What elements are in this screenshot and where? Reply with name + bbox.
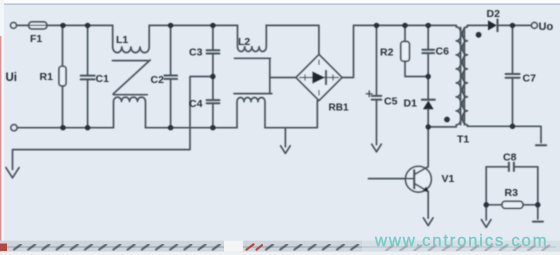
band red marks xyxy=(247,244,263,249)
bridge ac tick bottom xyxy=(318,91,320,96)
bottom left red blob xyxy=(0,244,7,252)
node top bus R1 xyxy=(60,23,65,28)
resistor R2 xyxy=(404,25,406,41)
diode D1 xyxy=(427,77,429,100)
bridge side tick right xyxy=(332,75,334,80)
resistor R3 xyxy=(486,204,502,206)
choke L2 core link vertical xyxy=(269,58,271,93)
band mid line xyxy=(4,246,556,247)
svg-text:Ui: Ui xyxy=(6,72,18,84)
output terminal xyxy=(532,23,538,29)
svg-text:C7: C7 xyxy=(523,73,537,85)
top border line xyxy=(0,3,560,5)
choke L2 top winding xyxy=(238,25,267,51)
svg-text:D1: D1 xyxy=(404,98,418,110)
wire: top bus L1 to L2 xyxy=(149,24,237,26)
V1 collector inner xyxy=(414,167,428,175)
V1 emitter inner xyxy=(414,183,428,191)
transformer T1 core line left xyxy=(460,28,462,125)
node bottom bus R1 xyxy=(60,125,65,130)
ground arrow under C5 xyxy=(372,144,382,152)
V1 emitter arrowhead xyxy=(423,186,429,192)
T1 primary polarity dot xyxy=(444,117,450,123)
svg-text:C4: C4 xyxy=(189,98,203,110)
ground arrow bottom left xyxy=(6,168,19,178)
svg-text:C8: C8 xyxy=(503,152,517,164)
svg-text:Uo: Uo xyxy=(539,21,554,33)
band white gap box xyxy=(224,241,243,252)
capacitor C7 xyxy=(512,25,514,73)
ground arrow under V1 xyxy=(423,218,433,226)
wire: top bus L2 to bridge top corner xyxy=(266,25,319,54)
capacitor C6 xyxy=(427,25,429,49)
capacitor C1 xyxy=(87,25,89,75)
wire: secondary top to D2 xyxy=(467,24,488,26)
transformer T1 secondary winding xyxy=(462,25,467,126)
choke L1 bottom core bar xyxy=(114,94,148,96)
svg-text:C2: C2 xyxy=(151,74,165,86)
capacitor C3 xyxy=(212,25,214,50)
V1 emitter down wire xyxy=(427,192,429,219)
choke L2 top core bar xyxy=(235,57,271,59)
V1 base bar xyxy=(413,170,415,188)
left red edge line xyxy=(0,36,1,252)
svg-text:C1: C1 xyxy=(96,73,110,85)
bridge inner diode bar xyxy=(325,71,327,84)
choke L2 bottom winding xyxy=(237,98,265,128)
input terminal bottom xyxy=(11,125,17,131)
wire: D2 to output terminal xyxy=(498,24,532,26)
svg-text:C6: C6 xyxy=(436,46,450,58)
node R2 C6 D1 xyxy=(426,74,431,79)
node top bus R2 xyxy=(402,23,407,28)
svg-text:T1: T1 xyxy=(457,134,469,146)
fuse F1 xyxy=(29,22,47,29)
ground bar secondary xyxy=(536,144,546,146)
choke L1 top winding xyxy=(113,25,150,52)
wire: D1 junction to transformer primary bottom xyxy=(428,126,456,128)
transformer T1 core line right xyxy=(463,28,465,125)
capacitor C4 xyxy=(212,77,214,100)
top white edge strip xyxy=(0,0,560,3)
wire: D1 junction down to V1 collector xyxy=(427,127,429,167)
ground bar under right node xyxy=(533,221,543,223)
wire: bottom bus L1 to L2 xyxy=(146,127,238,129)
choke L1 diagonal xyxy=(113,60,150,94)
capacitor C5 electrolytic xyxy=(376,25,378,95)
capacitor C2 xyxy=(170,25,172,75)
wire: top bus terminal to fuse xyxy=(17,24,29,26)
svg-text:R1: R1 xyxy=(40,71,54,83)
C5 plus sign xyxy=(366,93,372,95)
svg-text:www.cntronics.com: www.cntronics.com xyxy=(374,231,548,250)
choke L2 bottom core bar xyxy=(234,93,272,95)
transistor V1 xyxy=(406,166,432,192)
left white edge strip xyxy=(0,0,4,255)
transformer T1 primary winding xyxy=(456,25,461,127)
wire: bridge right corner up to right top bus to transformer xyxy=(342,25,456,77)
node bottom bus C2 xyxy=(168,125,173,130)
node top bus C6 xyxy=(426,23,431,28)
node bottom bus C1 xyxy=(85,125,90,130)
V1 base wire xyxy=(369,178,415,180)
bridge ac tick top xyxy=(318,60,320,65)
diode D2 xyxy=(488,20,497,30)
svg-text:R3: R3 xyxy=(505,187,519,199)
wire: C8 R3 right node vertical xyxy=(537,167,539,219)
bridge inner diode triangle xyxy=(312,71,325,84)
input terminal top xyxy=(11,23,17,29)
node bottom bus C4 xyxy=(210,125,215,130)
svg-text:D2: D2 xyxy=(487,8,501,20)
band slanted dashes xyxy=(14,244,549,250)
wire: R2 bottom to C6 line xyxy=(405,61,428,76)
node top bus C3 xyxy=(210,23,215,28)
bottom blurred caption band xyxy=(0,241,560,252)
bridge inner line xyxy=(300,77,339,79)
svg-text:L2: L2 xyxy=(238,36,250,48)
choke L1 top core bar xyxy=(113,60,149,62)
T1 secondary polarity dot xyxy=(476,32,482,38)
ground arrow stub under bus before bridge xyxy=(284,128,286,147)
bridge rectifier RB1 diamond xyxy=(296,55,342,101)
wire: C3 C4 midpoint to earth run xyxy=(13,77,213,170)
svg-text:V1: V1 xyxy=(442,173,455,185)
wire: C8 R3 left node vertical xyxy=(485,167,487,220)
bottom white edge xyxy=(0,252,560,255)
capacitor C8 xyxy=(486,166,508,168)
node top bus C1 xyxy=(85,23,90,28)
node R3 left xyxy=(484,202,489,207)
choke L1 bottom winding xyxy=(114,97,146,128)
node output C7 top xyxy=(510,23,515,28)
wire: bottom bus L2 to bridge bottom corner xyxy=(265,100,319,127)
wire: top bus fuse to L1 xyxy=(47,24,113,26)
node D1 T1 V1 xyxy=(426,124,431,129)
wire: secondary bottom run to ground xyxy=(467,126,541,142)
ground arrow under left node xyxy=(481,220,491,228)
node R3 right xyxy=(535,202,540,207)
svg-text:L1: L1 xyxy=(116,34,128,46)
svg-text:C5: C5 xyxy=(384,96,398,108)
resistor R1 xyxy=(62,25,64,127)
wire: L2 link to bridge left corner xyxy=(270,77,296,79)
node top bus C2 xyxy=(168,23,173,28)
svg-text:F1: F1 xyxy=(30,33,42,45)
bridge side tick left xyxy=(304,75,306,80)
node C3 C4 midpoint xyxy=(210,74,215,79)
node top bus C5 xyxy=(374,23,379,28)
node C7 bottom xyxy=(510,124,515,129)
wire: bottom bus terminal to L1 xyxy=(17,127,114,129)
svg-text:R2: R2 xyxy=(380,47,394,59)
svg-text:C3: C3 xyxy=(189,47,203,59)
svg-text:RB1: RB1 xyxy=(329,103,349,114)
